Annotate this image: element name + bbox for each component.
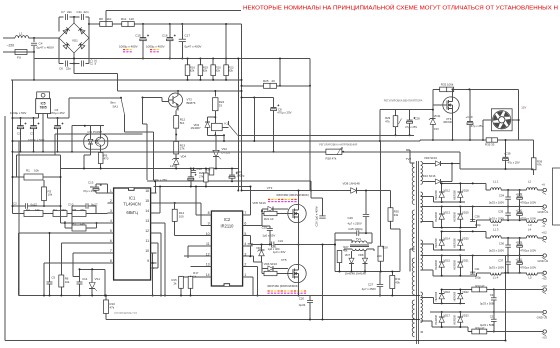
svg-text:C32: C32 [490, 293, 495, 297]
svg-text:VD8 1N4148: VD8 1N4148 [343, 181, 361, 185]
svg-text:4: 4 [244, 242, 246, 246]
zener VD7 [259, 250, 265, 256]
wire right bus x505.5 [505, 256, 507, 341]
wire y134.2 rail [55, 133, 143, 135]
wire y155.2 [16, 154, 60, 156]
svg-text:R21 10: R21 10 [264, 217, 274, 221]
capacitor C2a 470u x 25V [57, 118, 59, 125]
wire y190.5 VT3 drain rail [242, 190, 312, 192]
svg-text:VD22: VD22 [462, 290, 469, 294]
capacitor C8 470u x 25V [273, 98, 275, 107]
svg-text:22n: 22n [67, 10, 72, 14]
svg-text:43k: 43k [395, 281, 400, 285]
svg-text:R35 33: R35 33 [485, 142, 495, 146]
capacitor C12 22n [81, 61, 83, 67]
capacitor C22 100u x 25V [188, 176, 194, 178]
svg-text:100µ x 25V: 100µ x 25V [153, 178, 168, 182]
resistor R23 10 [264, 271, 277, 275]
svg-text:L1: L1 [19, 32, 23, 36]
svg-text:VT3: VT3 [267, 186, 273, 190]
wire diode top rail [441, 230, 486, 232]
svg-text:VT5: VT5 [281, 258, 287, 262]
svg-text:240: 240 [377, 254, 382, 258]
svg-text:+U2: +U2 [542, 231, 548, 235]
svg-text:1000µ x 50V: 1000µ x 50V [10, 111, 26, 115]
wire y186.5 rail [154, 186, 251, 188]
svg-text:R4: R4 [53, 208, 57, 212]
svg-text:4700µx 100V: 4700µx 100V [520, 201, 536, 205]
wire fan rail right vertical [518, 89, 520, 140]
TV2 lower primary winding [412, 258, 414, 295]
wire bridge left vertex up [58, 17, 60, 32]
capacitor C17 0u47 x 400V [181, 23, 183, 25]
resistor R30 43k [388, 208, 393, 222]
wire ch3 plus rail [441, 289, 472, 291]
diode VD19 HER308 [459, 207, 461, 214]
svg-text:C3: C3 [30, 132, 34, 136]
svg-text:VD1: VD1 [72, 39, 78, 43]
svg-text:15V: 15V [434, 127, 439, 131]
wire y168.5 run [61, 168, 239, 170]
svg-text:430: 430 [61, 208, 66, 212]
opto arrows [96, 140, 98, 141]
capacitor C5 [47, 281, 53, 283]
svg-text:VD20: VD20 [462, 237, 469, 241]
svg-text:47µ x 25V: 47µ x 25V [471, 124, 484, 128]
TV2 aux winding [421, 162, 423, 185]
svg-text:C26 1µ0 x 400V: C26 1µ0 x 400V [315, 206, 319, 226]
svg-text:15: 15 [145, 199, 149, 203]
wire VT6 gate [433, 104, 443, 106]
wires TL494 right pins routing [156, 192, 157, 194]
svg-text:470µ x 25V: 470µ x 25V [277, 111, 291, 115]
wire bottom rail y340.5 [5, 340, 506, 342]
svg-text:7: 7 [244, 211, 246, 215]
wire AC top rail [442, 201, 465, 203]
svg-text:IRFP460 (IRFP22N60K): IRFP460 (IRFP22N60K) [277, 193, 309, 197]
svg-text:VD4: VD4 [181, 155, 187, 159]
wire ch3 AC top rail [442, 302, 465, 304]
wire tap ch3 bottom [421, 320, 432, 322]
wire TV1 primary leads [351, 240, 353, 243]
svg-text:+U3: +U3 [542, 284, 548, 288]
minus bus y58.5 [34, 58, 310, 60]
wires IR2110 left pins [196, 214, 205, 216]
svg-text:33: 33 [219, 103, 223, 107]
wire TV1 area bottom rail y271.5 [335, 271, 400, 273]
svg-text:4700µx 100V: 4700µx 100V [520, 265, 536, 269]
svg-text:100: 100 [179, 214, 184, 218]
svg-text:14: 14 [145, 209, 149, 213]
svg-text:BT151: BT151 [222, 150, 231, 154]
resistor R20 82k [212, 58, 214, 60]
svg-text:C17: C17 [185, 34, 191, 38]
wire fan leads [483, 119, 491, 121]
svg-text:10k: 10k [65, 280, 70, 284]
svg-text:1: 1 [110, 189, 112, 193]
svg-text:0µ33 x 50В: 0µ33 x 50В [480, 301, 494, 305]
resistor R9 470 [103, 125, 105, 127]
svg-text:L4: L4 [528, 228, 532, 232]
inductor L1.2 [477, 219, 491, 221]
svg-text:82k: 82k [203, 69, 208, 73]
wire bridge minus down to x117 [73, 64, 75, 74]
svg-text:22n: 22n [66, 67, 71, 71]
svg-text:43k: 43k [394, 213, 399, 217]
svg-text:110: 110 [129, 17, 134, 21]
svg-text:0µ33 x 100V: 0µ33 x 100V [489, 249, 504, 253]
diode VD22 HER308 [459, 290, 461, 294]
svg-text:2: 2 [110, 199, 112, 203]
mosfet VT5 [288, 264, 306, 282]
svg-text:10k: 10k [34, 169, 39, 173]
wire TV1 secondary leads [344, 248, 352, 250]
svg-text:13: 13 [206, 263, 210, 267]
svg-text:100p: 100p [475, 223, 481, 227]
svg-text:10: 10 [145, 249, 149, 253]
svg-text:R11: R11 [121, 17, 127, 21]
terminal GND U1 [543, 205, 546, 208]
svg-text:C1: C1 [17, 132, 21, 136]
terminal GND U3 [543, 310, 546, 313]
svg-text:HER308: HER308 [434, 238, 438, 248]
svg-text:12: 12 [206, 252, 210, 256]
svg-text:12V: 12V [170, 164, 175, 168]
svg-text:27k: 27k [199, 174, 204, 178]
svg-text:HER308: HER308 [434, 211, 438, 221]
svg-text:IC1: IC1 [129, 196, 136, 201]
svg-text:47k: 47k [537, 163, 542, 167]
svg-text:0µ47 x 400V: 0µ47 x 400V [37, 45, 55, 49]
wire VT3 source to mid [298, 223, 300, 245]
svg-text:VD23: VD23 [462, 313, 469, 317]
svg-text:HER308: HER308 [434, 291, 438, 301]
wires IR2110 right pins [249, 214, 251, 216]
wire bridge right vertex vertical [88, 17, 90, 38]
svg-text:11: 11 [206, 242, 210, 246]
wire bridge lower-left to cap row [58, 38, 60, 64]
wire tap winding bottom [421, 269, 434, 271]
svg-text:470µ x 25V: 470µ x 25V [50, 111, 65, 115]
wire y141 to fan block [310, 140, 380, 142]
svg-text:C13: C13 [88, 180, 94, 184]
wire to switch SA1 [69, 97, 121, 99]
wire VT3 drain [298, 191, 300, 205]
inductor L5 [527, 273, 538, 275]
svg-text:C24: C24 [278, 239, 284, 243]
svg-text:C18: C18 [197, 167, 203, 171]
svg-text:100p: 100p [475, 276, 481, 280]
svg-text:2: 2 [244, 263, 246, 267]
svg-text:47µ x 25V: 47µ x 25V [508, 161, 520, 165]
svg-text:47µ x 25В: 47µ x 25В [83, 189, 96, 193]
svg-text:VD17: VD17 [444, 313, 451, 317]
wire bridge bottom vertex down [73, 53, 75, 64]
wire diode top rail [441, 182, 486, 184]
svg-text:C31: C31 [475, 267, 480, 271]
svg-text:4µ7 x 250V: 4µ7 x 250V [362, 287, 376, 291]
svg-text:8: 8 [110, 259, 112, 263]
legend box right edge [553, 168, 560, 225]
capacitor C14 [77, 281, 83, 283]
zener VD4 12V [173, 159, 179, 165]
svg-text:VD14: VD14 [444, 237, 451, 241]
svg-text:+C29: +C29 [466, 115, 473, 119]
svg-text:C38: C38 [475, 215, 480, 219]
svg-text:20: 20 [272, 79, 276, 83]
svg-text:0µ33: 0µ33 [299, 303, 306, 307]
resistor R16 82k [187, 58, 189, 60]
svg-text:1000µ x 400V: 1000µ x 400V [119, 45, 138, 49]
bus corner to 310 down [309, 59, 311, 86]
resistor R31 43k [390, 276, 395, 289]
svg-text:L1.1: L1.1 [493, 180, 499, 184]
wire C38 R36 bottom join [460, 168, 534, 170]
svg-text:VD11: VD11 [434, 114, 441, 118]
wire box vertical x280 [279, 59, 281, 86]
opto transistor [96, 137, 105, 146]
svg-text:R28 47k: R28 47k [326, 157, 337, 161]
svg-text:6: 6 [244, 222, 246, 226]
wire gnd rail [421, 206, 543, 208]
transistor VT2 BD876 [169, 93, 183, 107]
svg-text:9: 9 [147, 259, 149, 263]
svg-text:9: 9 [208, 222, 210, 226]
svg-text:5k1: 5k1 [180, 121, 185, 125]
wire 7805 input rail [13, 117, 39, 119]
resistor R3 10k [42, 187, 47, 201]
terminal +U [543, 188, 546, 191]
relay contact [222, 126, 229, 128]
capacitor C4 0u47 x 400V [33, 38, 35, 42]
cap ground dots [20, 151, 22, 153]
bleeder bus bottom y79.9 [11, 79, 242, 81]
svg-text:C28: C28 [415, 116, 421, 120]
svg-text:0µ33 x 100V: 0µ33 x 100V [489, 265, 504, 269]
capacitor C24 1u0 x 400V series [251, 244, 271, 246]
resistor R2 10k [13, 213, 25, 215]
diode VD23 HER308 [459, 312, 461, 317]
TV2 primary winding upper [412, 163, 414, 204]
svg-text:VD9 SF16: VD9 SF16 [424, 156, 437, 160]
svg-text:C15: C15 [135, 34, 141, 38]
bridge diode upper-left [63, 27, 70, 34]
svg-text:C12: C12 [90, 60, 94, 66]
svg-text:IRFP460 (IRFP22N60K): IRFP460 (IRFP22N60K) [268, 284, 299, 288]
bus x241.5 vertical [241, 24, 243, 191]
svg-text:12V: 12V [521, 105, 526, 109]
diode VD15 HER308 [441, 256, 443, 262]
svg-text:HER308: HER308 [434, 314, 438, 324]
svg-text:РЕГУЛИРОВКА ВЕНТИЛЯТОРА: РЕГУЛИРОВКА ВЕНТИЛЯТОРА [384, 98, 423, 102]
TV2 secondary winding ch3 [421, 292, 423, 322]
svg-text:R1: R1 [26, 169, 30, 173]
wire left vertical x5 long [4, 116, 6, 341]
svg-text:VD5 SF16: VD5 SF16 [252, 201, 266, 205]
svg-text:HER308: HER308 [453, 211, 457, 221]
wire fan reg bottom [380, 134, 414, 136]
svg-text:C16: C16 [162, 34, 168, 38]
svg-text:РЕГУЛИРОВКА НАПРЯЖЕНИЯ: РЕГУЛИРОВКА НАПРЯЖЕНИЯ [319, 142, 357, 146]
diode VD13 HER308 [441, 207, 443, 214]
wire relay coil bottom [214, 131, 216, 135]
capacitor C15 1000u x 400V [142, 23, 144, 25]
resistor R17 1k [188, 276, 193, 288]
opto LED [88, 139, 93, 144]
wire fan reg top rail [380, 109, 420, 111]
leader line to note text [105, 11, 107, 22]
TV2 primary leads [410, 162, 415, 164]
wire L1 to bridge [29, 37, 59, 39]
svg-text:HER308: HER308 [434, 190, 438, 200]
svg-text:C26: C26 [348, 216, 354, 220]
wire ch3 AC bottom rail [432, 326, 468, 328]
bridge diode lower-left [63, 42, 70, 49]
wire R11 to bulk caps bus [134, 23, 241, 25]
terminal GND U2 [543, 254, 546, 257]
svg-text:HER308: HER308 [453, 190, 457, 200]
svg-text:1000µ: 1000µ [237, 173, 245, 177]
svg-text:C27: C27 [368, 282, 374, 286]
wire opto led bottom [90, 149, 92, 155]
terminal +U3 [543, 288, 546, 291]
wire y141 long rail [13, 140, 311, 142]
resistor R24 33 [214, 91, 216, 97]
IC2 IR2110 DIP14 [211, 211, 242, 286]
wire bottom rail y319.5 [106, 319, 420, 321]
svg-text:6: 6 [110, 239, 112, 243]
top DC bus y24 [89, 23, 100, 25]
regulator IC5 7805 [37, 92, 50, 99]
wire tap winding top to VD14 [421, 243, 434, 245]
svg-text:VD16: VD16 [444, 290, 451, 294]
svg-text:VD10 SF16: VD10 SF16 [421, 174, 436, 178]
wire x322.5 vertical [322, 245, 324, 320]
wire top bus to bleeder bus [225, 24, 227, 59]
wire VT2 collector [177, 91, 179, 93]
wire gate node VT3 [261, 210, 263, 212]
svg-text:3: 3 [244, 252, 246, 256]
svg-text:C5: C5 [51, 276, 55, 280]
svg-text:VD6 SF16: VD6 SF16 [264, 262, 278, 266]
svg-text:IC2: IC2 [224, 217, 231, 222]
bus x238.3 vertical [237, 59, 239, 191]
svg-text:HER308: HER308 [453, 291, 457, 301]
svg-text:22n: 22n [84, 10, 89, 14]
capacitor C3 1000u x 50V [33, 118, 35, 125]
svg-text:TV2: TV2 [406, 157, 412, 161]
resistor R8 110 [100, 22, 113, 27]
svg-text:IR2110: IR2110 [221, 224, 235, 229]
svg-text:11: 11 [145, 239, 149, 243]
resistor R25 20 row [242, 85, 264, 87]
svg-text:C6: C6 [59, 67, 63, 71]
svg-text:C34: C34 [499, 193, 505, 197]
svg-text:C11: C11 [77, 10, 83, 14]
terminal -U3 [543, 330, 546, 333]
svg-text:1000µ x 400V: 1000µ x 400V [146, 45, 165, 49]
svg-text:82k: 82k [228, 69, 233, 73]
svg-text:10k: 10k [35, 208, 40, 212]
svg-text:7: 7 [110, 249, 112, 253]
resistor R28 240 [378, 246, 383, 261]
node AC1 [33, 37, 35, 39]
svg-text:L1.4: L1.4 [493, 276, 499, 280]
wire VT6 source down [452, 113, 454, 140]
resistor R7 12k [72, 225, 86, 231]
svg-text:47k: 47k [385, 119, 390, 123]
svg-text:47µ x 25V: 47µ x 25V [405, 125, 417, 129]
mosfet VT6 IRF640 [443, 97, 459, 113]
diode VD12 HER308 [441, 183, 443, 192]
svg-text:4: 4 [110, 219, 112, 223]
svg-text:VD13: VD13 [444, 210, 451, 214]
wire y151.8 to right [343, 151, 420, 153]
svg-text:VD8: VD8 [358, 253, 364, 257]
terminal +U2 [543, 236, 546, 239]
mosfet VT3 [288, 204, 306, 222]
svg-text:C33: C33 [490, 314, 495, 318]
wire x19 vertical [18, 141, 20, 296]
svg-text:ОТКЛЮЧЕНИЕ ТХХ: ОТКЛЮЧЕНИЕ ТХХ [114, 312, 138, 315]
svg-text:1N4007: 1N4007 [191, 126, 202, 130]
svg-text:R26: R26 [199, 171, 204, 175]
svg-text:R5: R5 [73, 208, 77, 212]
svg-text:R32 100k: R32 100k [441, 83, 454, 87]
svg-text:0µ33 x 100V: 0µ33 x 100V [489, 216, 504, 220]
wire fan bottom row y140 [420, 139, 486, 141]
svg-text:+C41: +C41 [516, 240, 523, 244]
resistor R11 110 [122, 22, 135, 27]
svg-text:13: 13 [145, 219, 149, 223]
resistor R5 47k [72, 211, 86, 217]
wire IR2110 pin4 to mid node [249, 245, 251, 247]
svg-text:TV1: TV1 [356, 237, 362, 241]
capacitor C16 1000u x 400V [169, 23, 171, 25]
svg-text:~220: ~220 [7, 43, 15, 47]
wire pin8 feed y269.3 [80, 268, 106, 270]
wire C26 top feed [365, 191, 367, 206]
wire left vertical x12.5 down [12, 80, 14, 214]
svg-text:C20: C20 [299, 297, 305, 301]
svg-text:VD18: VD18 [462, 189, 469, 193]
svg-text:47k: 47k [110, 306, 115, 310]
wire ch3 gnd rail [430, 311, 543, 313]
capacitor C31 100p [472, 256, 474, 274]
svg-text:VD7: VD7 [345, 253, 351, 257]
svg-text:C36: C36 [499, 241, 505, 245]
svg-text:0µ47 x 400V: 0µ47 x 400V [185, 45, 202, 49]
terminal −U [543, 219, 546, 222]
svg-text:R2: R2 [26, 208, 30, 212]
svg-text:82k: 82k [216, 69, 221, 73]
svg-text:1: 1 [244, 273, 246, 277]
wire VT6 drain up [452, 89, 454, 96]
resistor R4 430 [53, 211, 67, 217]
svg-text:GND U1: GND U1 [538, 210, 549, 214]
svg-text:HER308: HER308 [434, 259, 438, 269]
svg-text:TL494CN: TL494CN [123, 202, 141, 207]
wire +310V rail down to VT3 drain rail [309, 86, 311, 191]
capacitor C18 [193, 169, 195, 171]
svg-text:10k: 10k [48, 193, 53, 197]
thyristor VS2 [213, 150, 219, 156]
svg-text:VD21: VD21 [462, 258, 469, 262]
svg-text:1N4148 1N4148: 1N4148 1N4148 [345, 272, 366, 276]
wire y109.6 left stub [420, 109, 433, 111]
node row y295.5 [19, 295, 254, 297]
resistor R10 47k [105, 296, 107, 301]
